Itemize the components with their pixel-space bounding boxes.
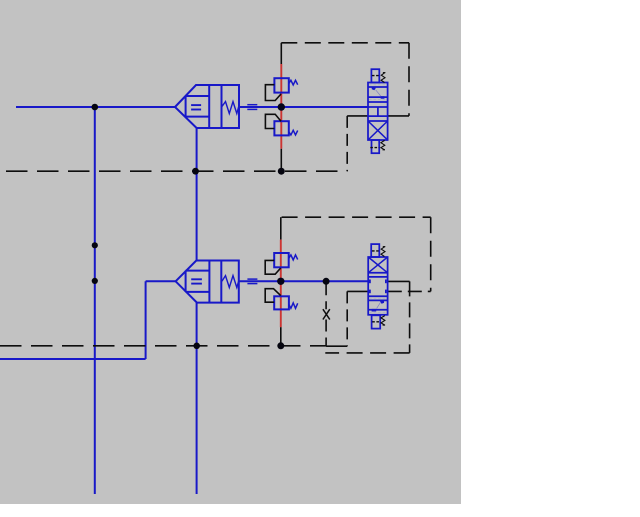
directional valve DV2 body [368,257,387,315]
directional valve DV1 body [368,83,388,141]
pilot sense line (black bottom) [280,149,282,171]
throttle drain path (left of valve) [347,290,368,292]
X (closed position, top) [368,257,387,273]
relief valve V2 (lower) [265,114,297,135]
X (closed position) [368,121,388,140]
wire: valve right port to enclosure edge [388,115,409,117]
pilot sense line 2 (black top) [280,217,282,239]
wire: blue vertical x=196.5 (U1 bottom port down to lower pump) [196,128,198,261]
DV1 arrow (position 1) [376,90,381,96]
pilot sense line 2 (red) [280,240,282,328]
DV1 faint dashed bands [369,84,387,86]
junction node J (sense line 2 / dashed drain line) [277,342,284,349]
dashed drain line y=345.8 [0,345,326,347]
relief valve V1 (upper) [265,78,297,100]
dashed enclosure 1 right edge [408,43,410,116]
blocked port ticks [369,280,371,284]
wire: valve left port corner piece (black) [347,115,368,117]
junction node D (sense line / dashed drain line) [278,168,285,175]
mechanical link marks (=) right of U1 [247,104,257,106]
DV1 top pilot box [371,69,379,82]
wire: pump outlet to valve (main line y=107) [239,106,368,108]
relief valve V4 (lower of pair) [265,289,298,310]
junction node F (connection point on branch) [92,278,98,284]
junction node I (pump 2 drain / dashed drain line) [193,343,200,350]
junction node A (branch at x=95, main supply) [92,104,99,111]
dashed enclosure 1 top edge [281,42,409,44]
pilot sense line 2 (black bottom) [280,327,282,346]
junction node G (relief valves / lower main line) [277,278,284,285]
wire: valve right port y=281.4 drain [388,280,410,282]
dashed enclosure 2 right edge [430,217,432,291]
wire: lower supply from left edge [0,358,146,360]
wire: lower main line to valve [239,280,368,282]
DV2 top pilot box [371,244,379,257]
pilot sense line (black top) [280,43,282,64]
compensator valve U2 (lower pump/pressure compensator) [176,261,239,303]
throttle vertical dashed [325,283,327,309]
wire: valve right port y=291.4 to enclosure [388,290,431,292]
mechanical link marks (=) right of U2 [247,278,257,280]
DV2 arrow (mirrored) [377,303,381,309]
DV1 top spring [381,73,385,83]
dashed enclosure 2 top edge [282,216,431,218]
DV2 faint dashed bands [369,297,386,299]
junction node H (throttle branch / lower main line) [323,278,330,285]
DV1 bottom spring [381,140,385,149]
relief valve V3 (upper of pair) [265,253,298,274]
wire: blue vertical below U2 [196,303,198,494]
compensator valve U1 (upper pump/pressure compensator) [175,85,239,128]
dashed drain line y=171.2 [6,170,347,172]
DV2 bottom pilot box [372,315,381,328]
wire: main supply line P1 (left) [16,106,175,108]
pilot sense line (red) [280,64,282,149]
DV2 top spring [381,247,385,257]
DV1 bottom pilot box [372,140,380,153]
DV2 bottom spring [381,316,385,326]
junction node B (relief valves / main line) [278,103,285,110]
junction node E (connection point on branch) [92,242,98,248]
dashed enclosure 2 bottom edge [325,352,409,354]
throttle (restrictor) X [323,309,330,319]
junction node C (pump drain / dashed drain line) [192,168,199,175]
wire: vertical branch at x=94.6 down to bottom [94,107,96,494]
